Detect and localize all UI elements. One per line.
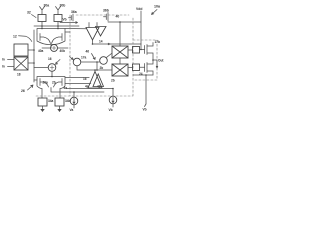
svg-text:26: 26 bbox=[21, 89, 25, 93]
degeneration box 34b bbox=[55, 98, 64, 106]
gate box R1 bbox=[133, 47, 140, 54]
differential pair 20b left transistor bbox=[37, 79, 49, 99]
wire 42a bottom bbox=[73, 105, 75, 108]
junction dots left column bbox=[33, 49, 35, 64]
junction dot Q2 source bbox=[145, 74, 147, 76]
tick 44 bbox=[145, 104, 147, 107]
gate box R2 bbox=[133, 64, 140, 71]
junction dot out bbox=[152, 59, 154, 61]
wire amp 16a output bbox=[93, 40, 142, 44]
wire RF input bbox=[8, 59, 15, 61]
mixer box 22 bbox=[14, 57, 28, 70]
svg-text:Va: Va bbox=[70, 108, 74, 112]
svg-text:32: 32 bbox=[27, 11, 31, 15]
wire 28b to mixer M2a bbox=[106, 54, 111, 58]
differential pair 20b rail bbox=[37, 77, 65, 80]
svg-text:34b: 34b bbox=[65, 99, 71, 103]
wire box12 to column bbox=[28, 49, 34, 51]
differential pair 20a rail bbox=[37, 29, 65, 35]
wire M2a to R1 bbox=[128, 49, 133, 51]
wire node 24a out bbox=[58, 47, 69, 49]
supply symbol 30a bbox=[40, 7, 45, 15]
wire mixer M2a to M2b bbox=[119, 58, 121, 64]
amplifier 16a2 triangle bbox=[96, 27, 107, 37]
ground 34a bbox=[42, 106, 44, 109]
supply symbol 30b bbox=[56, 7, 61, 15]
amplifier 16b triangle bbox=[88, 72, 102, 89]
differential pair 20a left transistor bbox=[37, 34, 51, 45]
svg-text:40b: 40b bbox=[60, 49, 66, 53]
wire bias arrow bbox=[60, 22, 78, 24]
wire amp inputs top bbox=[89, 23, 97, 28]
svg-text:12: 12 bbox=[13, 35, 17, 39]
output line Out bbox=[153, 59, 157, 61]
svg-text:2b: 2b bbox=[52, 81, 56, 85]
wire LO input bbox=[8, 66, 15, 68]
svg-text:In: In bbox=[2, 58, 5, 62]
svg-text:2b: 2b bbox=[100, 66, 104, 70]
svg-text:4a: 4a bbox=[85, 85, 89, 89]
wire 38a drain bbox=[41, 22, 43, 29]
transistor Q1 bbox=[145, 43, 153, 61]
svg-text:30b: 30b bbox=[60, 4, 66, 8]
junction dot c2 lead bbox=[112, 88, 114, 90]
differential pair 20b right transistor bbox=[54, 79, 66, 99]
junction dot bbox=[96, 61, 98, 63]
wire top rail lower bbox=[65, 28, 86, 30]
dashed output stage boundary bbox=[133, 40, 157, 80]
wire drop bbox=[96, 62, 98, 70]
summing node 24b bbox=[48, 64, 56, 72]
svg-text:Vb: Vb bbox=[109, 108, 113, 112]
degeneration box 34a bbox=[38, 98, 47, 106]
oscillator circle 28a bbox=[73, 58, 81, 66]
wire 20b center tail bbox=[51, 88, 104, 98]
oscillator circle 28b bbox=[100, 57, 108, 65]
junction dot amp out bbox=[92, 43, 94, 45]
wire 20b left stub bbox=[34, 79, 37, 81]
junction dot 16b bbox=[94, 69, 96, 71]
filter box 12 bbox=[14, 44, 28, 56]
arrow into 28a bbox=[70, 57, 74, 60]
ground 34b bbox=[59, 106, 61, 109]
amplifier 16b2 triangle bbox=[93, 74, 104, 87]
wire tail diff pair 20a bbox=[42, 45, 51, 49]
inductor box 38b bbox=[54, 15, 62, 22]
figure arrow 10a bbox=[152, 10, 158, 15]
junction dots top rails bbox=[41, 25, 59, 29]
leader arrow 26 bbox=[28, 85, 34, 90]
svg-text:34a: 34a bbox=[48, 99, 54, 103]
summing node 24b plus bbox=[50, 66, 54, 70]
svg-text:40a: 40a bbox=[38, 49, 44, 53]
svg-text:18: 18 bbox=[17, 73, 21, 77]
leader arrow 46 bbox=[92, 54, 96, 60]
current source 42b bbox=[109, 96, 117, 104]
svg-text:20a: 20a bbox=[43, 81, 49, 85]
wire out drop bbox=[156, 60, 158, 68]
amplifier 16a triangle bbox=[86, 28, 99, 41]
arrowhead wire 14 bbox=[108, 43, 110, 45]
wire mixer22 to column bbox=[28, 62, 34, 64]
junction dot2 bbox=[96, 69, 98, 71]
leader 12 bbox=[19, 36, 32, 42]
svg-text:24: 24 bbox=[139, 72, 143, 76]
dashed chip boundary bbox=[36, 15, 133, 96]
svg-text:36a: 36a bbox=[71, 10, 77, 14]
wire R2 to Q2 bbox=[140, 66, 145, 68]
wire R1 to Q1 bbox=[140, 49, 145, 51]
wire 38b drain bbox=[57, 22, 59, 29]
mixer box M2b bbox=[112, 64, 128, 76]
svg-text:2b: 2b bbox=[111, 79, 115, 83]
junction VDD to Q1 bbox=[140, 44, 142, 50]
svg-text:4b: 4b bbox=[97, 85, 101, 89]
svg-text:17b: 17b bbox=[155, 40, 161, 44]
wire M2b to R2 bbox=[128, 67, 133, 69]
summing node 24a bbox=[51, 45, 58, 52]
svg-text:14: 14 bbox=[99, 40, 103, 44]
wire diff pair 20a right stub bbox=[65, 31, 70, 33]
transistor Q2 bbox=[145, 60, 153, 75]
differential pair 20a right transistor bbox=[52, 34, 66, 45]
wire into node 24b bbox=[34, 67, 48, 69]
wire top right rail bbox=[108, 21, 141, 23]
current source 42a arrow bbox=[73, 98, 75, 103]
mixer box M2a bbox=[112, 46, 128, 58]
svg-text:30a: 30a bbox=[44, 4, 50, 8]
wire node 24b down bbox=[51, 71, 53, 76]
wire 28a bottom path bbox=[77, 66, 112, 70]
transistor 36b symbol bbox=[104, 13, 109, 22]
junction dot 20b rail bbox=[51, 76, 53, 78]
svg-text:10a: 10a bbox=[154, 5, 161, 9]
svg-text:36b: 36b bbox=[103, 9, 109, 13]
svg-text:Vb: Vb bbox=[63, 18, 67, 22]
wire amp base to current source bbox=[66, 89, 113, 97]
current source 42a bbox=[70, 97, 78, 105]
wire left column vertical bbox=[33, 30, 35, 82]
inductor box 38a bbox=[38, 15, 46, 22]
svg-text:Vb: Vb bbox=[143, 108, 147, 112]
current source 42b arrow bbox=[112, 97, 114, 102]
svg-text:4a: 4a bbox=[64, 86, 68, 90]
junction dot bbox=[119, 21, 121, 23]
wire top rail upper bbox=[34, 25, 79, 27]
svg-text:16: 16 bbox=[48, 57, 52, 61]
svg-text:Vdd: Vdd bbox=[136, 7, 142, 11]
junction dot q1 gate bbox=[140, 49, 141, 50]
leader 32 bbox=[32, 15, 37, 18]
svg-text:In: In bbox=[2, 65, 5, 69]
bias line right vertical bbox=[145, 75, 147, 104]
wire VDD vertical bbox=[140, 11, 142, 44]
svg-text:17a: 17a bbox=[81, 55, 87, 59]
wire 42b bottom bbox=[112, 104, 114, 107]
wire amp 16b inputs bbox=[65, 78, 91, 84]
wire mixer M2a feed bbox=[119, 22, 121, 46]
wire Q2 source rail bbox=[133, 74, 153, 76]
junction dot c1 lead bbox=[73, 91, 75, 93]
svg-text:Out: Out bbox=[158, 59, 164, 63]
svg-text:46: 46 bbox=[86, 50, 90, 54]
wire amp 16b output bbox=[94, 70, 96, 72]
summing node 24a plus bbox=[52, 46, 56, 50]
wire 28a right bbox=[81, 61, 100, 63]
transistor 36a symbol bbox=[69, 14, 74, 21]
leader arrow into 24b bbox=[56, 60, 61, 65]
